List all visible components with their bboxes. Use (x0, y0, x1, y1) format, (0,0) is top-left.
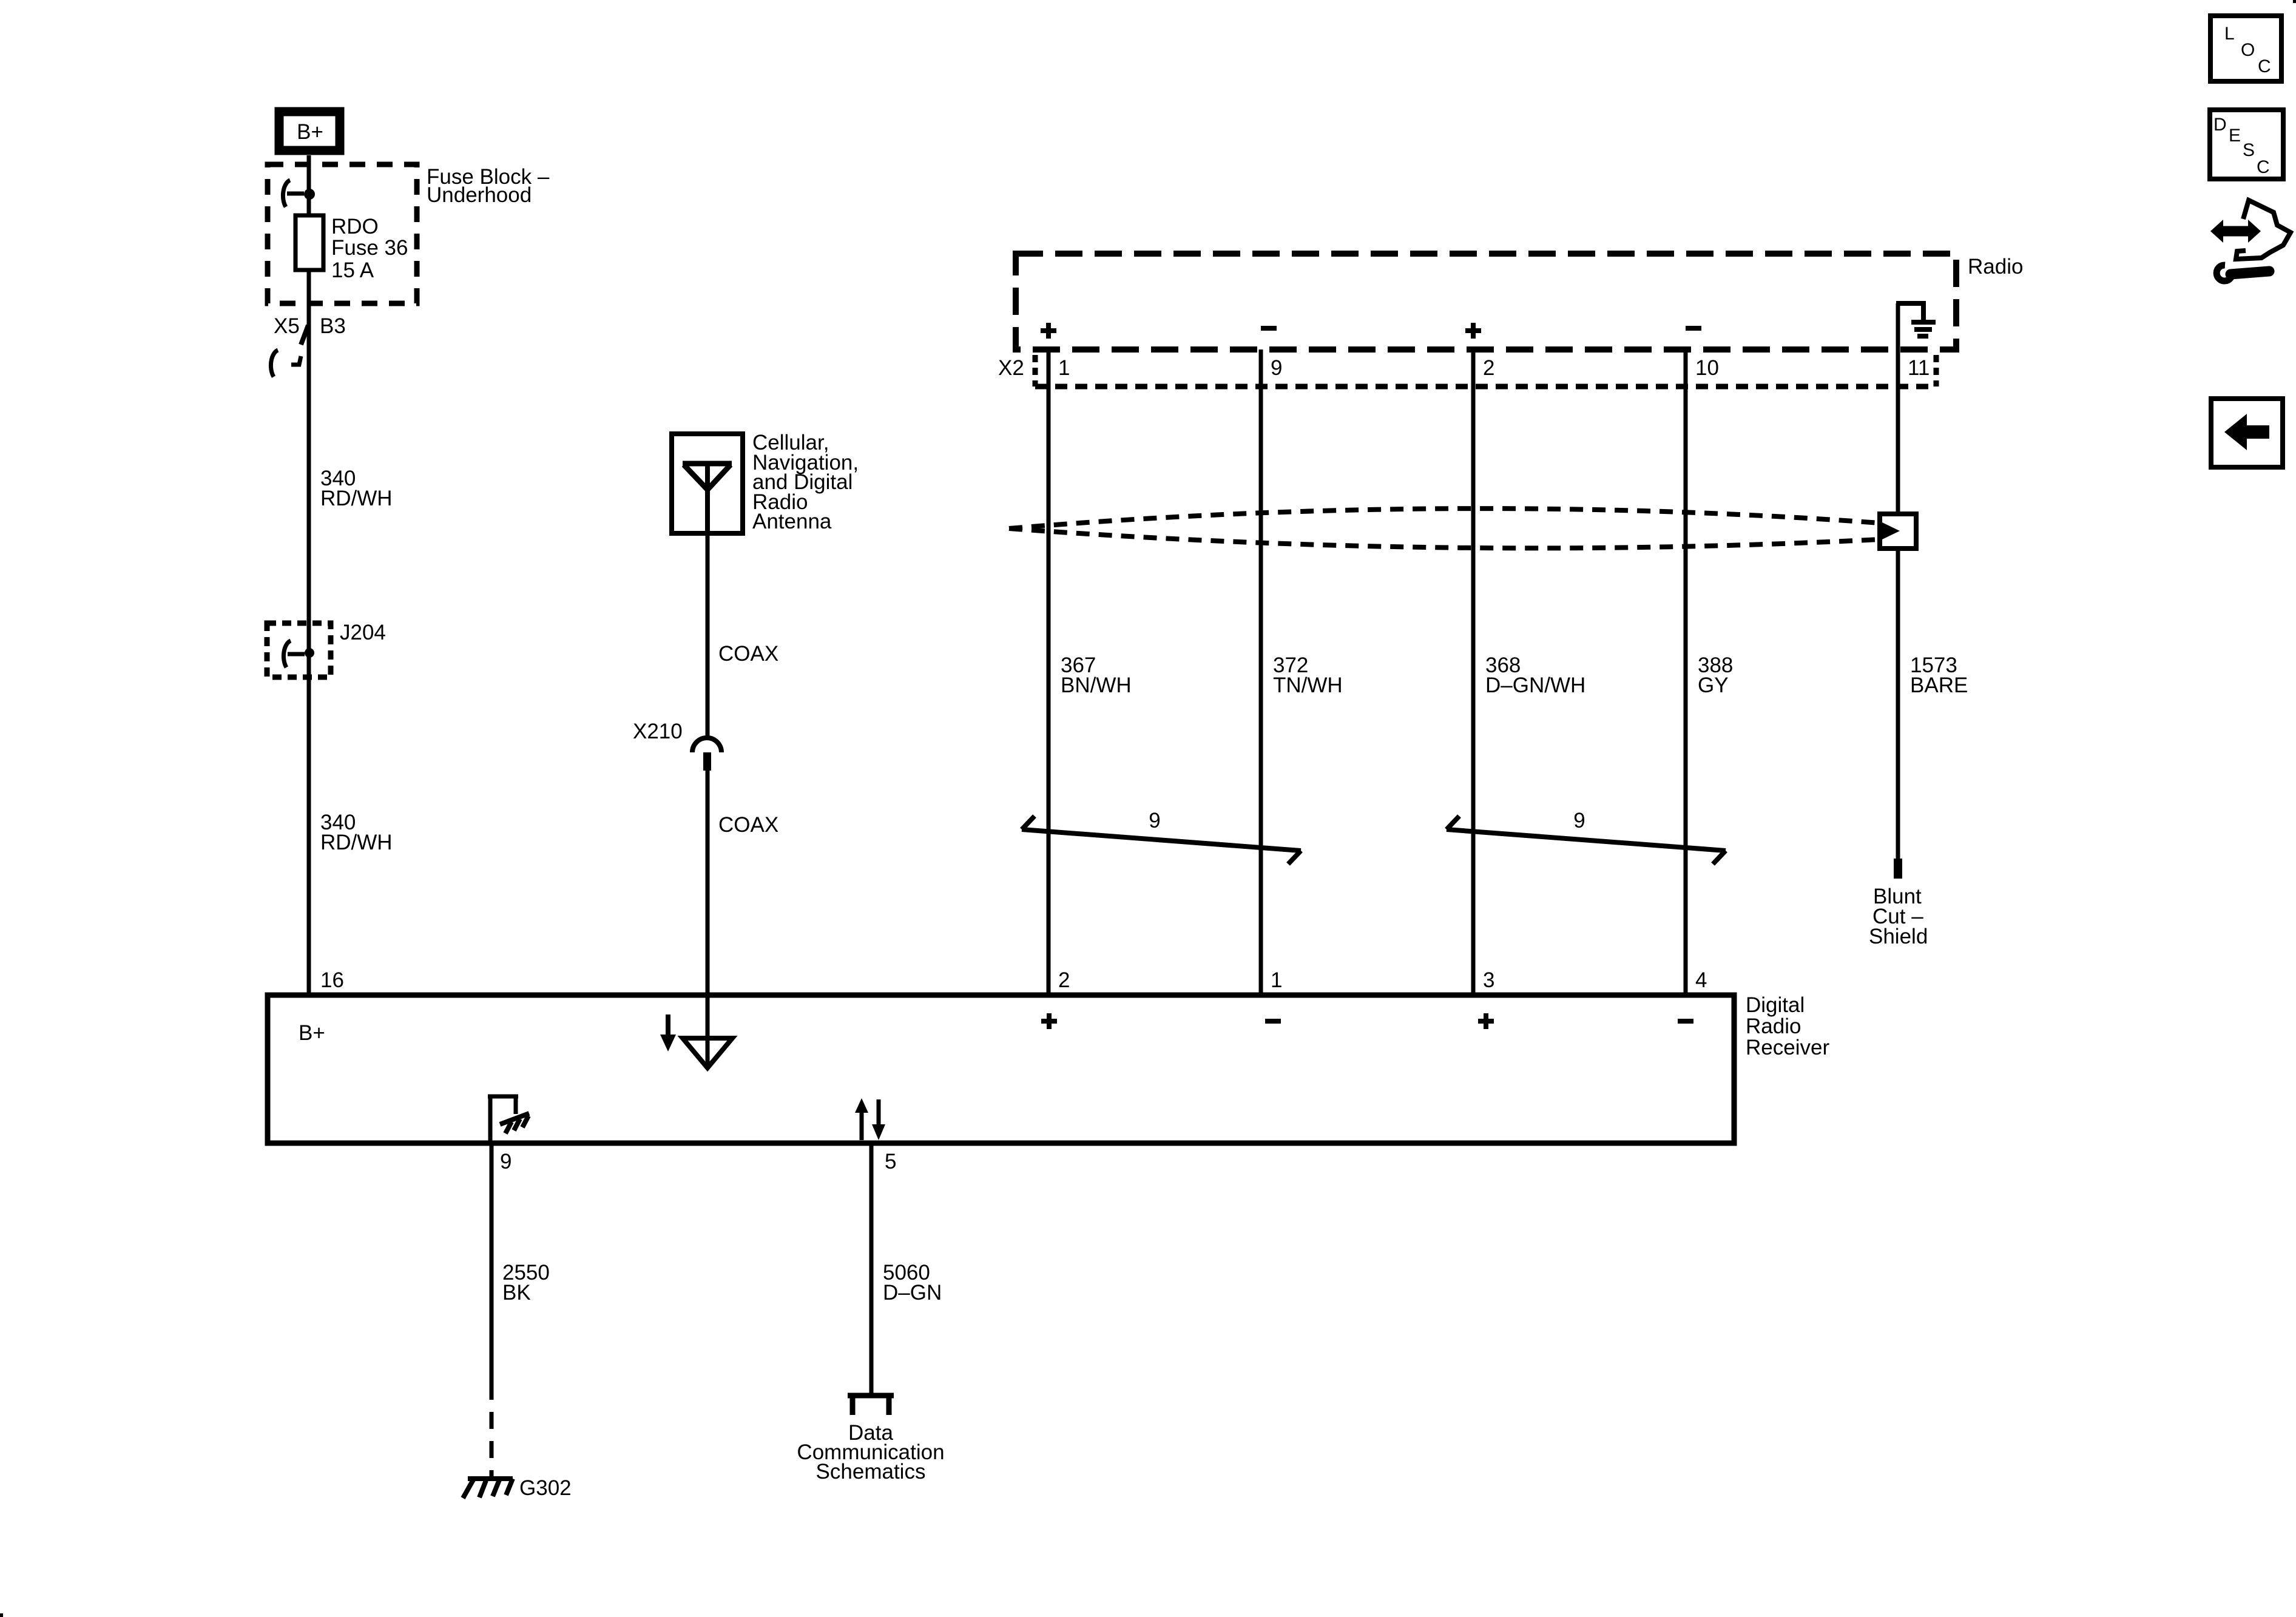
receiver internal ground pin 9 (488, 1095, 493, 1143)
shield terminator box (1880, 514, 1916, 549)
svg-text:BN/WH: BN/WH (1061, 673, 1132, 697)
svg-text:COAX: COAX (718, 813, 778, 837)
svg-text:C: C (2257, 157, 2270, 177)
coax wire lower (706, 771, 710, 1068)
svg-text:9: 9 (1271, 356, 1282, 380)
fuse RDO Fuse 36 15A (295, 215, 323, 270)
svg-text:16: 16 (320, 968, 344, 992)
svg-text:9: 9 (500, 1150, 512, 1173)
svg-text:Digital: Digital (1746, 993, 1805, 1017)
wire labels circuit numbers (1061, 653, 1968, 697)
svg-text:J204: J204 (340, 621, 386, 644)
svg-text:BARE: BARE (1910, 673, 1968, 697)
svg-text:B+: B+ (297, 120, 323, 144)
receiver plus minus labels (1041, 1019, 1057, 1024)
twisted pair symbol left (1022, 829, 1301, 851)
svg-text:X2: X2 (998, 356, 1024, 380)
node junction dot (304, 189, 315, 200)
svg-text:Shield: Shield (1869, 925, 1928, 948)
wire B+ to fuse block (307, 155, 311, 215)
ground G302 (463, 1479, 474, 1498)
svg-text:4: 4 (1695, 968, 1707, 992)
svg-text:11: 11 (1908, 356, 1930, 380)
svg-text:D: D (2213, 115, 2227, 135)
svg-text:D–GN/WH: D–GN/WH (1485, 673, 1585, 697)
harness routing icon double arrow (2221, 226, 2250, 237)
svg-text:9: 9 (1149, 809, 1160, 832)
receiver serial data arrows pin 5 (860, 1112, 864, 1140)
svg-text:Fuse 36: Fuse 36 (331, 236, 408, 260)
svg-text:COAX: COAX (718, 642, 778, 666)
svg-text:O: O (2241, 40, 2255, 60)
node J204 junction dot (305, 648, 314, 658)
svg-text:RD/WH: RD/WH (320, 831, 393, 854)
back arrow icon box (2211, 399, 2283, 467)
svg-text:G302: G302 (519, 1476, 572, 1500)
svg-text:Receiver: Receiver (1746, 1036, 1829, 1059)
wire pin 9 radio (1259, 349, 1263, 995)
wire pin 10 (1684, 349, 1688, 995)
digital radio receiver box (268, 995, 1734, 1143)
svg-text:C: C (2258, 56, 2271, 76)
svg-text:RDO: RDO (331, 215, 379, 238)
LOC icon box (2210, 16, 2281, 81)
svg-text:B+: B+ (299, 1021, 325, 1045)
coax wire upper (706, 533, 710, 738)
svg-text:5: 5 (885, 1150, 896, 1173)
harness routing icon outline (2236, 200, 2291, 259)
twisted pair symbol right (1447, 829, 1726, 851)
svg-text:1: 1 (1058, 356, 1070, 380)
svg-text:L: L (2224, 24, 2235, 44)
wire 2550 BK (490, 1143, 494, 1400)
svg-text:Radio: Radio (1968, 255, 2023, 279)
svg-text:X210: X210 (633, 720, 683, 743)
receiver antenna symbol (666, 1014, 670, 1036)
plus sign pin 1 (1041, 328, 1056, 333)
svg-text:15 A: 15 A (331, 258, 374, 282)
shield lens dashed (1009, 508, 1880, 528)
antenna symbol (683, 461, 732, 467)
blunt cut shield terminator (1894, 859, 1902, 879)
svg-text:E: E (2229, 126, 2241, 146)
svg-text:Schematics: Schematics (816, 1460, 926, 1484)
splice J204 dashed box (267, 623, 331, 677)
antenna box (672, 434, 743, 533)
harness routing icon wrench (2217, 265, 2232, 281)
J204 branch hook (283, 641, 291, 667)
minus sign pin 9 (1261, 326, 1277, 331)
svg-text:9: 9 (1573, 809, 1585, 832)
receiver label (1746, 993, 1829, 1059)
fuse block internal branch hook (283, 180, 290, 207)
svg-text:B3: B3 (320, 314, 346, 338)
svg-text:BK: BK (502, 1281, 531, 1305)
radio dashed box (1016, 254, 1956, 349)
wire pin 11 shield (1896, 303, 1900, 859)
svg-text:1: 1 (1271, 968, 1282, 992)
page speck top right (2293, 0, 2296, 3)
svg-text:10: 10 (1695, 356, 1719, 380)
svg-text:3: 3 (1483, 968, 1494, 992)
connector X2 row dotted lines (1033, 355, 1038, 387)
minus sign pin 10 (1686, 326, 1701, 331)
svg-text:D–GN: D–GN (883, 1281, 942, 1305)
DESC icon box (2210, 110, 2283, 179)
svg-text:X5: X5 (274, 314, 300, 338)
svg-text:2: 2 (1058, 968, 1070, 992)
wire pin 2 (1471, 349, 1476, 995)
svg-text:TN/WH: TN/WH (1273, 673, 1343, 697)
svg-text:S: S (2243, 140, 2255, 160)
off-page bracket (848, 1393, 894, 1399)
wire pin 1 (1047, 349, 1051, 995)
svg-text:Radio: Radio (1746, 1014, 1801, 1038)
antenna label (752, 431, 859, 533)
radio internal ground symbol (1896, 301, 1926, 306)
fuse block label (427, 165, 550, 207)
receiver pin labels top (1058, 968, 1707, 992)
svg-text:2: 2 (1483, 356, 1494, 380)
B+ power feed box (279, 112, 340, 150)
wire label 340 RD/WH upper (320, 467, 393, 510)
data communication reference (797, 1421, 944, 1484)
fuse block underhood dashed box (268, 164, 417, 303)
svg-text:RD/WH: RD/WH (320, 487, 393, 510)
svg-text:Underhood: Underhood (427, 183, 532, 207)
svg-text:Antenna: Antenna (752, 510, 832, 533)
wire fuse to receiver pin 16 (307, 270, 311, 995)
pin labels X2 row (1058, 356, 1930, 380)
connector hook X5 (271, 350, 278, 377)
wire 5060 D-GN (869, 1143, 874, 1396)
connector X5 pin B3 (274, 314, 346, 338)
wire label 340 RD/WH lower (320, 811, 393, 854)
page speck bottom left (0, 1613, 3, 1617)
svg-text:GY: GY (1698, 673, 1729, 697)
plus sign pin 2 (1465, 328, 1481, 333)
